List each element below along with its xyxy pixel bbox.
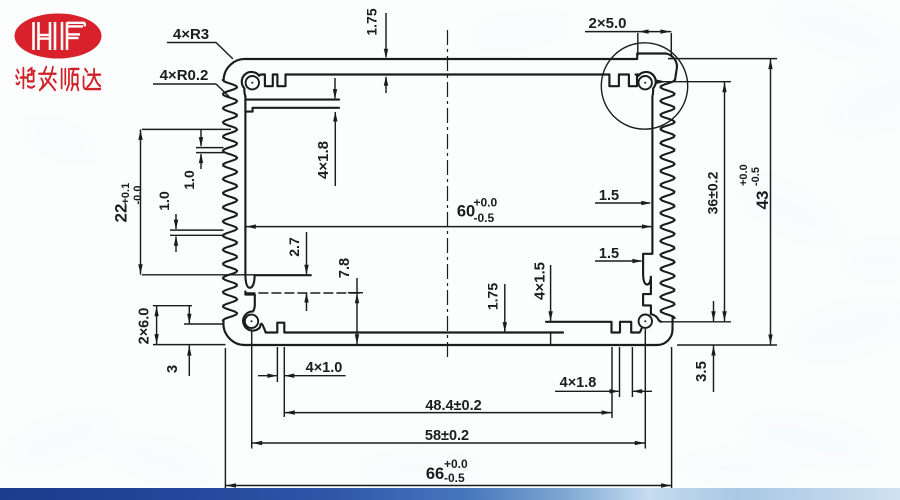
svg-text:4×1.5: 4×1.5 <box>532 262 549 300</box>
svg-text:+0.1: +0.1 <box>120 183 132 205</box>
svg-text:+0.0: +0.0 <box>444 457 468 471</box>
svg-text:4×1.8: 4×1.8 <box>560 375 597 391</box>
svg-text:-0.5: -0.5 <box>474 211 495 225</box>
svg-text:48.4±0.2: 48.4±0.2 <box>425 398 481 414</box>
svg-text:58±0.2: 58±0.2 <box>425 428 469 444</box>
svg-text:+0.0: +0.0 <box>738 164 750 186</box>
svg-text:-0.0: -0.0 <box>132 186 144 205</box>
svg-text:1.75: 1.75 <box>485 283 501 310</box>
svg-text:43: 43 <box>753 191 772 210</box>
svg-text:+0.0: +0.0 <box>474 196 498 210</box>
svg-text:7.8: 7.8 <box>337 258 353 278</box>
svg-text:4×R3: 4×R3 <box>173 26 209 43</box>
svg-text:2×5.0: 2×5.0 <box>589 15 627 32</box>
svg-text:1.75: 1.75 <box>364 8 380 35</box>
svg-text:-0.5: -0.5 <box>444 471 465 485</box>
svg-text:3: 3 <box>164 365 181 373</box>
svg-text:66: 66 <box>426 465 444 483</box>
svg-text:2×6.0: 2×6.0 <box>137 308 153 345</box>
svg-text:4×1.0: 4×1.0 <box>306 360 343 376</box>
svg-text:60: 60 <box>457 203 475 221</box>
svg-text:-0.5: -0.5 <box>750 167 762 186</box>
svg-text:4×R0.2: 4×R0.2 <box>160 67 209 84</box>
svg-text:1.5: 1.5 <box>599 188 619 204</box>
svg-text:2.7: 2.7 <box>286 237 302 257</box>
svg-text:1.0: 1.0 <box>181 170 197 190</box>
svg-text:1.0: 1.0 <box>156 191 172 211</box>
svg-text:22: 22 <box>112 204 131 223</box>
svg-text:1.5: 1.5 <box>599 246 619 262</box>
svg-text:4×1.8: 4×1.8 <box>315 141 332 179</box>
svg-text:36±0.2: 36±0.2 <box>705 171 721 214</box>
svg-text:3.5: 3.5 <box>693 361 710 382</box>
